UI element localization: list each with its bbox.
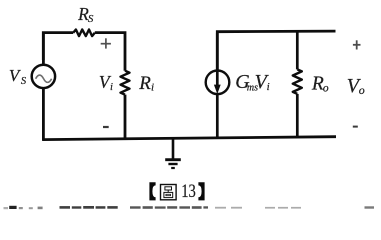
svg-text:R: R: [138, 73, 151, 94]
clipped text row at page bottom: [4, 206, 43, 209]
svg-text:o: o: [359, 83, 365, 97]
svg-text:S: S: [88, 13, 94, 25]
current source Gms*Vi: [206, 33, 230, 139]
wire bottom rail: [42, 137, 336, 140]
resistor Ro: [293, 69, 302, 93]
caption bracket left: [149, 182, 155, 200]
wire top-right rail: [217, 31, 335, 71]
caption bracket right: [198, 182, 204, 200]
label - (Vo bottom polarity): [353, 126, 358, 128]
svg-text:i: i: [110, 82, 113, 93]
svg-text:i: i: [267, 81, 270, 93]
label - (Vi bottom polarity): [103, 126, 109, 128]
resistor Ri: [121, 71, 130, 95]
wire Ro branch bottom: [296, 94, 299, 138]
svg-text:o: o: [323, 83, 329, 95]
wire top-left segment (VS top corner to RS): [43, 33, 73, 60]
wire RS to node Vi top: [95, 33, 125, 71]
label + (Vo top polarity): [353, 40, 361, 49]
label + (Vi top polarity): [101, 38, 111, 48]
clipped glyph at line end: [365, 206, 375, 208]
caption glyph 圖: [161, 185, 177, 200]
wire Ro branch top: [296, 30, 299, 69]
voltage source VS: [32, 32, 55, 141]
resistor RS: [73, 30, 95, 37]
ground: [165, 138, 181, 168]
svg-text:i: i: [151, 82, 154, 94]
wire Ri bottom: [124, 95, 127, 140]
svg-text:S: S: [21, 76, 27, 87]
svg-text:13: 13: [181, 181, 196, 202]
